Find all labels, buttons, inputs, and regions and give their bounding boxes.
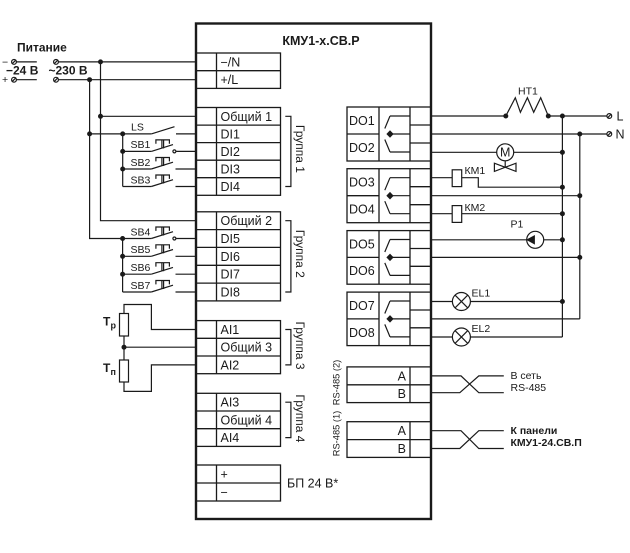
label Группа 4 (293, 394, 307, 442)
terminal block group4 (AI3, Общий 4, AI4) (196, 393, 281, 446)
relay contact K4 (385, 301, 410, 337)
wire DO7 to lamp EL1 (431, 301, 452, 303)
svg-text:DO8: DO8 (349, 326, 375, 340)
pin label AI4 (221, 431, 240, 445)
junction on N power wire (88, 78, 92, 82)
terminal L (607, 110, 624, 124)
pin label Общий 1 (221, 110, 273, 124)
pin label DO7 (349, 299, 375, 313)
relay output block DO5/DO6 (347, 231, 431, 285)
pin label B (RS-485 2) (398, 387, 406, 401)
label RS-485 (1) (332, 411, 342, 456)
svg-text:DO5: DO5 (349, 237, 375, 251)
wire ~230V N to +/L (58, 79, 196, 81)
terminal block БП 24 В (+,−) (196, 465, 281, 501)
junction on L power wire (99, 60, 103, 64)
RTD sensor Тр (103, 314, 129, 337)
junction N bus top (578, 132, 582, 136)
wire bus B to LS (90, 133, 152, 135)
junction bus B to LS wire (88, 132, 92, 136)
svg-text:БП 24 В*: БП 24 В* (287, 476, 338, 490)
svg-text:+/L: +/L (221, 73, 239, 87)
pin label DO5 (349, 237, 375, 251)
junction L bus at KM2 (561, 212, 565, 216)
wire L bus vertical (561, 116, 563, 337)
svg-text:Общий 3: Общий 3 (221, 341, 273, 355)
junction L bus at EL1 (561, 300, 565, 304)
label В сеть (511, 370, 542, 382)
svg-text:EL1: EL1 (472, 287, 491, 299)
junction sensors common (122, 345, 126, 349)
svg-text:EL2: EL2 (472, 323, 491, 335)
pin label AI2 (221, 358, 240, 372)
junction HT1 left (504, 114, 508, 118)
junction HT1 right (546, 114, 550, 118)
wire P1 to L bus (544, 239, 563, 241)
wire DO3 to KM1 (431, 177, 452, 179)
wire bus group1 (122, 134, 124, 187)
svg-text:Группа 3: Группа 3 (293, 321, 307, 369)
svg-text:DO2: DO2 (349, 141, 375, 155)
wire HT1 to L terminal (548, 115, 607, 117)
wire EL1 to L bus (470, 301, 562, 303)
terminal block RS-485 (1) (347, 422, 431, 458)
terminal ~230V upper (54, 60, 59, 65)
svg-text:КМУ1-х.СВ.Р: КМУ1-х.СВ.Р (282, 34, 359, 48)
lamp EL2 (452, 323, 490, 346)
svg-text:п: п (111, 367, 116, 377)
svg-text:DO3: DO3 (349, 176, 375, 190)
wire KM1 to L bus (462, 178, 563, 188)
svg-text:DI2: DI2 (221, 145, 241, 159)
junction bus group2 at SB6 (121, 272, 125, 276)
switch LS (131, 122, 196, 134)
pin label Общий 4 (221, 413, 273, 427)
label Группа 3 (293, 321, 307, 369)
label Питание (17, 41, 67, 55)
device title label (282, 34, 359, 48)
relay output block DO1/DO2 (347, 107, 431, 161)
wire DO1 to HT1 (431, 115, 506, 117)
wire Тр bottom to common (123, 336, 125, 360)
wire DO5 to pump P1 (431, 239, 527, 241)
wire bus group2 (122, 239, 124, 293)
svg-text:−24 В: −24 В (6, 63, 39, 77)
svg-text:RS-485: RS-485 (511, 382, 547, 394)
wire DO8 to lamp EL2 (431, 336, 452, 338)
wire RS-485 (2) B with crossover (431, 376, 504, 393)
junction bus group1 at SB2 (121, 167, 125, 171)
relay contact K2 (385, 178, 410, 214)
svg-text:Питание: Питание (17, 41, 67, 55)
pin label DO6 (349, 264, 375, 278)
svg-text:М: М (500, 146, 510, 160)
label БП 24 В* (287, 476, 338, 490)
wire DO1/DO2 common to N terminal (431, 133, 607, 135)
junction bus group2 at SB4 (121, 237, 125, 241)
svg-text:SB4: SB4 (131, 226, 151, 238)
pin label A (RS-485 2) (398, 369, 407, 383)
pin label Общий 3 (221, 341, 273, 355)
pushbutton SB2 (123, 157, 196, 169)
terminal block X1 (−/N, +/L) (196, 53, 281, 88)
wire bus B vertical (switch feed) (90, 80, 123, 239)
svg-text:Группа 1: Группа 1 (293, 125, 307, 173)
junction N bus at DO5/DO6 (578, 256, 582, 260)
svg-text:КМ2: КМ2 (465, 202, 486, 214)
svg-text:RS-485 (1): RS-485 (1) (332, 411, 342, 456)
junction N bus at DO3/DO4 (578, 194, 582, 198)
junction L bus at KM1 (561, 185, 565, 189)
bracket Группа 2 (285, 221, 291, 292)
svg-text:A: A (398, 369, 407, 383)
terminal block RS-485 (2) (347, 367, 431, 403)
svg-text:DO7: DO7 (349, 299, 375, 313)
svg-text:SB3: SB3 (131, 174, 151, 186)
label Группа 1 (293, 125, 307, 173)
pin label DO2 (349, 141, 375, 155)
bracket Группа 1 (285, 116, 291, 186)
svg-text:A: A (398, 424, 407, 438)
svg-text:SB5: SB5 (131, 244, 151, 256)
label КМУ1-24.СВ.П (511, 437, 582, 449)
device outline КМУ1-х.СВ.Р (196, 24, 431, 520)
svg-text:Общий 2: Общий 2 (221, 214, 273, 228)
pin label DI7 (221, 268, 241, 282)
pin label DO8 (349, 326, 375, 340)
pin label DI4 (221, 180, 241, 194)
motor M with valve (494, 144, 516, 172)
pin label AI1 (221, 323, 240, 337)
wire N bus vertical (579, 134, 581, 319)
wire Тп to AI2 (124, 365, 196, 392)
svg-text:AI2: AI2 (221, 358, 240, 372)
wire bus A vertical (commons feed) (101, 62, 197, 221)
terminal ~230V lower (54, 77, 59, 82)
svg-text:К панели: К панели (511, 425, 558, 437)
pin label DI3 (221, 162, 241, 176)
pin label + (221, 467, 228, 481)
svg-text:AI1: AI1 (221, 323, 240, 337)
resistor HT1 (506, 86, 549, 117)
label Группа 2 (293, 230, 307, 278)
pin label −/N (221, 55, 241, 69)
pin label DI1 (221, 127, 241, 141)
pushbutton SB1 (123, 139, 196, 153)
junction bus group2 at SB5 (121, 254, 125, 258)
pin label DO3 (349, 176, 375, 190)
svg-text:DO4: DO4 (349, 203, 375, 217)
pin label AI3 (221, 396, 240, 410)
svg-text:DI3: DI3 (221, 162, 241, 176)
pin label A (RS-485 1) (398, 424, 407, 438)
pin label DO1 (349, 114, 375, 128)
terminal block group2 (Общий 2, DI5-DI8) (196, 212, 281, 301)
svg-text:SB6: SB6 (131, 262, 151, 274)
wire motor M to L bus (514, 151, 563, 153)
junction L bus at P1 (561, 238, 565, 242)
svg-text:Группа 2: Группа 2 (293, 230, 307, 278)
svg-text:+: + (221, 467, 228, 481)
svg-text:AI3: AI3 (221, 396, 240, 410)
pin label − (221, 485, 228, 499)
wire Тр to AI1 (124, 305, 196, 330)
bracket Группа 4 (285, 402, 291, 437)
label RS-485 (2) (332, 360, 342, 405)
pin label DI5 (221, 232, 241, 246)
junction bus group1 at LS (121, 132, 125, 136)
svg-text:RS-485 (2): RS-485 (2) (332, 360, 342, 405)
svg-text:LS: LS (131, 122, 144, 134)
svg-text:DI7: DI7 (221, 268, 241, 282)
wire DO3/DO4 common to N bus (431, 195, 580, 197)
svg-text:DO1: DO1 (349, 114, 375, 128)
svg-text:~230 В: ~230 В (49, 63, 88, 77)
svg-text:DO6: DO6 (349, 264, 375, 278)
relay contact K3 (385, 240, 410, 276)
junction bus A to Общий 1 (99, 114, 103, 118)
wire DO4 to KM2 (431, 213, 452, 215)
terminal N (607, 128, 625, 142)
svg-text:DI5: DI5 (221, 232, 241, 246)
terminal block group3 (AI1, Общий 3, AI2) (196, 321, 281, 374)
svg-text:L: L (617, 110, 624, 124)
svg-text:Общий 1: Общий 1 (221, 110, 273, 124)
contactor coil КМ2 (452, 202, 485, 223)
wire KM2 to L bus (462, 213, 563, 215)
terminal −24V plus (2, 74, 37, 86)
wire EL2 to L bus end (470, 336, 562, 338)
svg-text:HT1: HT1 (518, 86, 538, 98)
svg-text:P1: P1 (511, 219, 524, 231)
svg-text:AI4: AI4 (221, 431, 240, 445)
svg-text:N: N (616, 128, 625, 142)
pin label +/L (221, 73, 239, 87)
contactor coil КМ1 (452, 165, 485, 187)
svg-text:р: р (111, 321, 117, 331)
pin label Общий 2 (221, 214, 273, 228)
terminal block group1 (Общий 1, DI1-DI4) (196, 108, 281, 196)
svg-text:SB2: SB2 (131, 157, 151, 169)
wire DO2 to motor M (431, 151, 497, 153)
svg-text:SB7: SB7 (131, 280, 151, 292)
svg-text:SB1: SB1 (131, 139, 151, 151)
pin label DI2 (221, 145, 241, 159)
pin label B (RS-485 1) (398, 442, 406, 456)
label −24 В (6, 63, 39, 77)
terminal −24V minus (2, 56, 37, 68)
svg-text:КМ1: КМ1 (465, 165, 486, 177)
label ~230 В (49, 63, 88, 77)
svg-text:DI4: DI4 (221, 180, 241, 194)
svg-text:DI1: DI1 (221, 127, 241, 141)
junction bus group1 at SB1 (121, 150, 125, 154)
svg-text:Общий 4: Общий 4 (221, 413, 273, 427)
RTD sensor Тп (103, 360, 129, 382)
svg-text:DI6: DI6 (221, 250, 241, 264)
lamp EL1 (452, 287, 490, 310)
bracket Группа 3 (285, 330, 291, 365)
svg-text:B: B (398, 442, 406, 456)
pushbutton SB7 (123, 280, 196, 292)
wire bus A to Общий 1 (101, 115, 197, 117)
pushbutton SB6 (123, 262, 196, 274)
pin label DO4 (349, 203, 375, 217)
pushbutton SB5 (123, 244, 196, 256)
wire RS-485 (1) A with crossover (431, 431, 504, 449)
svg-text:B: B (398, 387, 406, 401)
label К панели (511, 425, 558, 437)
svg-text:КМУ1-24.СВ.П: КМУ1-24.СВ.П (511, 437, 582, 449)
wire common to Общий 3 (124, 346, 196, 348)
svg-text:DI8: DI8 (221, 286, 241, 300)
wire RS-485 (1) B with crossover (431, 431, 504, 449)
junction L bus top (561, 114, 565, 118)
wire RS-485 (2) A with crossover (431, 376, 504, 393)
svg-text:В сеть: В сеть (511, 370, 542, 382)
pin label DI8 (221, 286, 241, 300)
pushbutton SB4 (123, 226, 196, 240)
junction L bus at motor (561, 150, 565, 154)
wire DO7/DO8 common to N bus end (431, 318, 580, 320)
svg-text:−: − (221, 485, 228, 499)
relay output block DO3/DO4 (347, 169, 431, 223)
pushbutton SB3 (123, 174, 196, 186)
label RS-485 net (511, 382, 547, 394)
pin label DI6 (221, 250, 241, 264)
svg-text:−/N: −/N (221, 55, 241, 69)
svg-text:Группа 4: Группа 4 (293, 394, 307, 442)
wire ~230V L to −/N (58, 61, 196, 63)
wire DO5/DO6 common to N bus (431, 256, 580, 258)
pump P1 (511, 219, 544, 249)
relay contact K1 (385, 116, 410, 152)
relay output block DO7/DO8 (347, 292, 431, 346)
